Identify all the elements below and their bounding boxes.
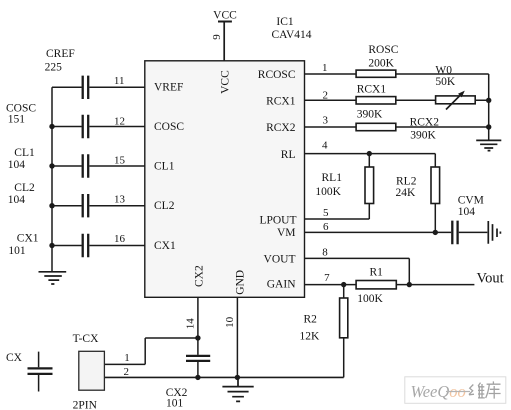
resistor ROSC 200K <box>356 44 399 77</box>
wire R2 leads <box>343 285 345 378</box>
svg-text:14: 14 <box>184 318 196 330</box>
label Vout <box>477 270 504 286</box>
resistor RL2 24K <box>396 167 440 204</box>
svg-text:50K: 50K <box>435 76 456 88</box>
label CL2 104 <box>8 182 35 206</box>
pin 16 number <box>114 233 126 245</box>
svg-text:100K: 100K <box>357 293 383 305</box>
svg-text:RL1: RL1 <box>322 172 343 184</box>
svg-text:T-CX: T-CX <box>73 333 99 345</box>
svg-text:390K: 390K <box>410 130 436 142</box>
svg-text:12: 12 <box>114 115 125 127</box>
svg-text:CL1: CL1 <box>14 147 35 159</box>
resistor RL1 100K <box>315 167 373 204</box>
svg-text:GAIN: GAIN <box>267 279 296 291</box>
svg-text:CX1: CX1 <box>154 240 176 252</box>
pin 7 number <box>324 272 330 284</box>
pin 10 number <box>224 316 236 328</box>
svg-text:2: 2 <box>124 366 130 378</box>
svg-text:225: 225 <box>45 62 63 74</box>
IC U1 CAV414 body <box>145 61 305 297</box>
svg-text:1: 1 <box>322 62 328 74</box>
watermark WeeQoo <box>405 377 506 404</box>
wire pin 3 RCX2 row <box>305 126 489 128</box>
connector pin 2 number <box>124 366 130 378</box>
wire pin 7 GAIN row <box>305 284 475 286</box>
pin 15 number <box>114 155 126 167</box>
svg-text:RL2: RL2 <box>396 175 417 187</box>
ground right of CVM rotated <box>488 221 500 244</box>
svg-text:104: 104 <box>458 206 476 218</box>
wire pin 16 CX1 row <box>52 245 145 247</box>
wire pin 6 VM row <box>305 231 452 233</box>
wire pin 15 CL1 row <box>52 165 145 167</box>
svg-text:2PIN: 2PIN <box>73 399 98 410</box>
svg-text:RCX2: RCX2 <box>266 122 296 134</box>
svg-text:CL1: CL1 <box>154 160 175 172</box>
wire VCC to pin 9 <box>223 22 225 61</box>
wire pin 1 RCOSC row <box>305 74 489 140</box>
svg-text:11: 11 <box>114 75 125 87</box>
resistor R1 100K <box>356 267 396 306</box>
ground right bus <box>476 140 501 150</box>
svg-text:104: 104 <box>8 194 26 206</box>
svg-text:RCX2: RCX2 <box>410 117 440 129</box>
svg-text:104: 104 <box>8 159 26 171</box>
svg-text:VCC: VCC <box>213 10 237 22</box>
svg-text:15: 15 <box>114 155 126 167</box>
wire pin 14 CX2 column <box>197 297 199 377</box>
svg-text:RCOSC: RCOSC <box>258 69 296 81</box>
junction node bus-row15 <box>49 163 54 168</box>
svg-text:VOUT: VOUT <box>264 254 296 266</box>
svg-text:16: 16 <box>114 233 126 245</box>
capacitor CVM 104 <box>452 194 484 244</box>
svg-text:9: 9 <box>211 34 223 40</box>
capacitor CL1 <box>83 154 89 177</box>
svg-text:IC1: IC1 <box>276 16 294 28</box>
wire bottom rail <box>104 376 343 378</box>
wire RL2 leads <box>434 154 436 233</box>
svg-text:CL2: CL2 <box>154 200 175 212</box>
svg-text:Vout: Vout <box>477 270 504 286</box>
label CREF 225 <box>45 48 75 73</box>
capacitor COSC <box>83 115 89 138</box>
junction node GAIN-R2 <box>341 282 346 287</box>
wire pin 11 VREF row <box>52 86 145 88</box>
resistor RCX2 390K <box>356 108 439 141</box>
wire CVM to ground <box>459 231 488 233</box>
connector pin 1 number <box>124 352 130 364</box>
svg-text:8: 8 <box>322 246 328 258</box>
svg-text:151: 151 <box>8 114 26 126</box>
svg-text:RCX1: RCX1 <box>266 96 296 108</box>
svg-text:100K: 100K <box>315 186 341 198</box>
svg-text:ROSC: ROSC <box>368 44 398 56</box>
wire pin 10 GND column <box>236 297 238 377</box>
pin 14 number <box>184 318 196 330</box>
svg-text:1: 1 <box>124 352 130 364</box>
connector J1 T-CX 2PIN <box>73 333 105 410</box>
junction node pin14-tcx <box>195 335 200 340</box>
resistor RCX1 390K <box>356 84 396 104</box>
svg-text:W0: W0 <box>435 64 452 76</box>
potentiometer W0 50K <box>435 64 475 109</box>
junction node gnd-rail <box>235 375 240 380</box>
svg-text:101: 101 <box>166 397 184 409</box>
pin 13 number <box>114 194 126 206</box>
svg-text:CVM: CVM <box>458 194 484 206</box>
svg-text:2: 2 <box>323 90 329 102</box>
svg-text:24K: 24K <box>396 187 417 199</box>
svg-text:CX2: CX2 <box>194 265 206 287</box>
svg-text:10: 10 <box>224 316 236 328</box>
wire pin 12 COSC row <box>52 126 145 128</box>
svg-text:CX1: CX1 <box>17 233 39 245</box>
svg-text:VM: VM <box>277 227 296 239</box>
pin 8 number <box>322 246 328 258</box>
capacitor CL2 <box>83 194 89 217</box>
svg-text:RCX1: RCX1 <box>357 84 387 96</box>
wire pin 8 VOUT row <box>305 258 410 284</box>
pin 3 number <box>322 114 328 126</box>
svg-text:R2: R2 <box>304 314 318 326</box>
pin 12 number <box>114 115 125 127</box>
ground bottom <box>222 377 253 401</box>
label CX1 101 <box>8 233 38 257</box>
pin 2 number <box>323 90 329 102</box>
svg-text:CAV414: CAV414 <box>272 29 312 41</box>
svg-text:101: 101 <box>8 245 26 257</box>
svg-text:4: 4 <box>322 140 328 152</box>
svg-text:CL2: CL2 <box>14 182 35 194</box>
svg-text:200K: 200K <box>368 58 394 70</box>
svg-text:5: 5 <box>323 207 329 219</box>
svg-text:COSC: COSC <box>154 121 184 133</box>
pin 1 number <box>322 62 328 74</box>
wire pin 2 RCX1 row <box>305 99 489 101</box>
junction node rcx2-bus <box>486 124 491 129</box>
ground left bus <box>39 272 67 284</box>
svg-text:VCC: VCC <box>219 70 231 94</box>
svg-text:LPOUT: LPOUT <box>259 214 296 226</box>
svg-text:R1: R1 <box>370 267 384 279</box>
resistor R2 12K <box>300 298 348 343</box>
pin 9 number <box>211 34 223 40</box>
svg-text:CX: CX <box>6 352 23 364</box>
junction node RL-RL1 <box>367 151 372 156</box>
capacitor CX2 101 <box>166 356 211 409</box>
wire pin 13 CL2 row <box>52 205 145 207</box>
svg-text:RL: RL <box>281 149 296 161</box>
svg-text:12K: 12K <box>300 331 321 343</box>
capacitor CX1 <box>83 234 89 257</box>
junction node bus-row16 <box>49 243 54 248</box>
junction node pin14-rail <box>195 375 200 380</box>
junction node bus-row12 <box>49 124 54 129</box>
label COSC 151 <box>6 103 36 126</box>
junction node pot-bus <box>486 98 491 103</box>
svg-text:7: 7 <box>324 272 330 284</box>
svg-text:CREF: CREF <box>46 48 75 60</box>
svg-text:COSC: COSC <box>6 103 36 115</box>
capacitor CREF <box>83 76 89 99</box>
pin 6 number <box>323 221 329 233</box>
pin 11 number <box>114 75 125 87</box>
junction node GAIN-VOUT <box>407 282 412 287</box>
power VCC symbol <box>213 10 237 22</box>
junction node bus-row13 <box>49 203 54 208</box>
svg-text:13: 13 <box>114 194 126 206</box>
svg-text:VREF: VREF <box>154 82 183 94</box>
label CL1 104 <box>8 147 35 171</box>
svg-text:390K: 390K <box>357 108 383 120</box>
svg-text:3: 3 <box>322 114 328 126</box>
pin 5 number <box>323 207 329 219</box>
wire left bus vertical <box>51 87 53 271</box>
wire pin 4 RL row <box>305 153 436 155</box>
wire RL1 leads <box>305 154 370 219</box>
wire T-CX pin1 to CX2 node <box>104 338 197 364</box>
capacitor CX <box>6 352 53 392</box>
svg-text:6: 6 <box>323 221 329 233</box>
junction node VM-RL2 <box>433 230 438 235</box>
label IC1 CAV414 <box>272 16 312 41</box>
svg-text:GND: GND <box>235 270 247 295</box>
pin 4 number <box>322 140 328 152</box>
